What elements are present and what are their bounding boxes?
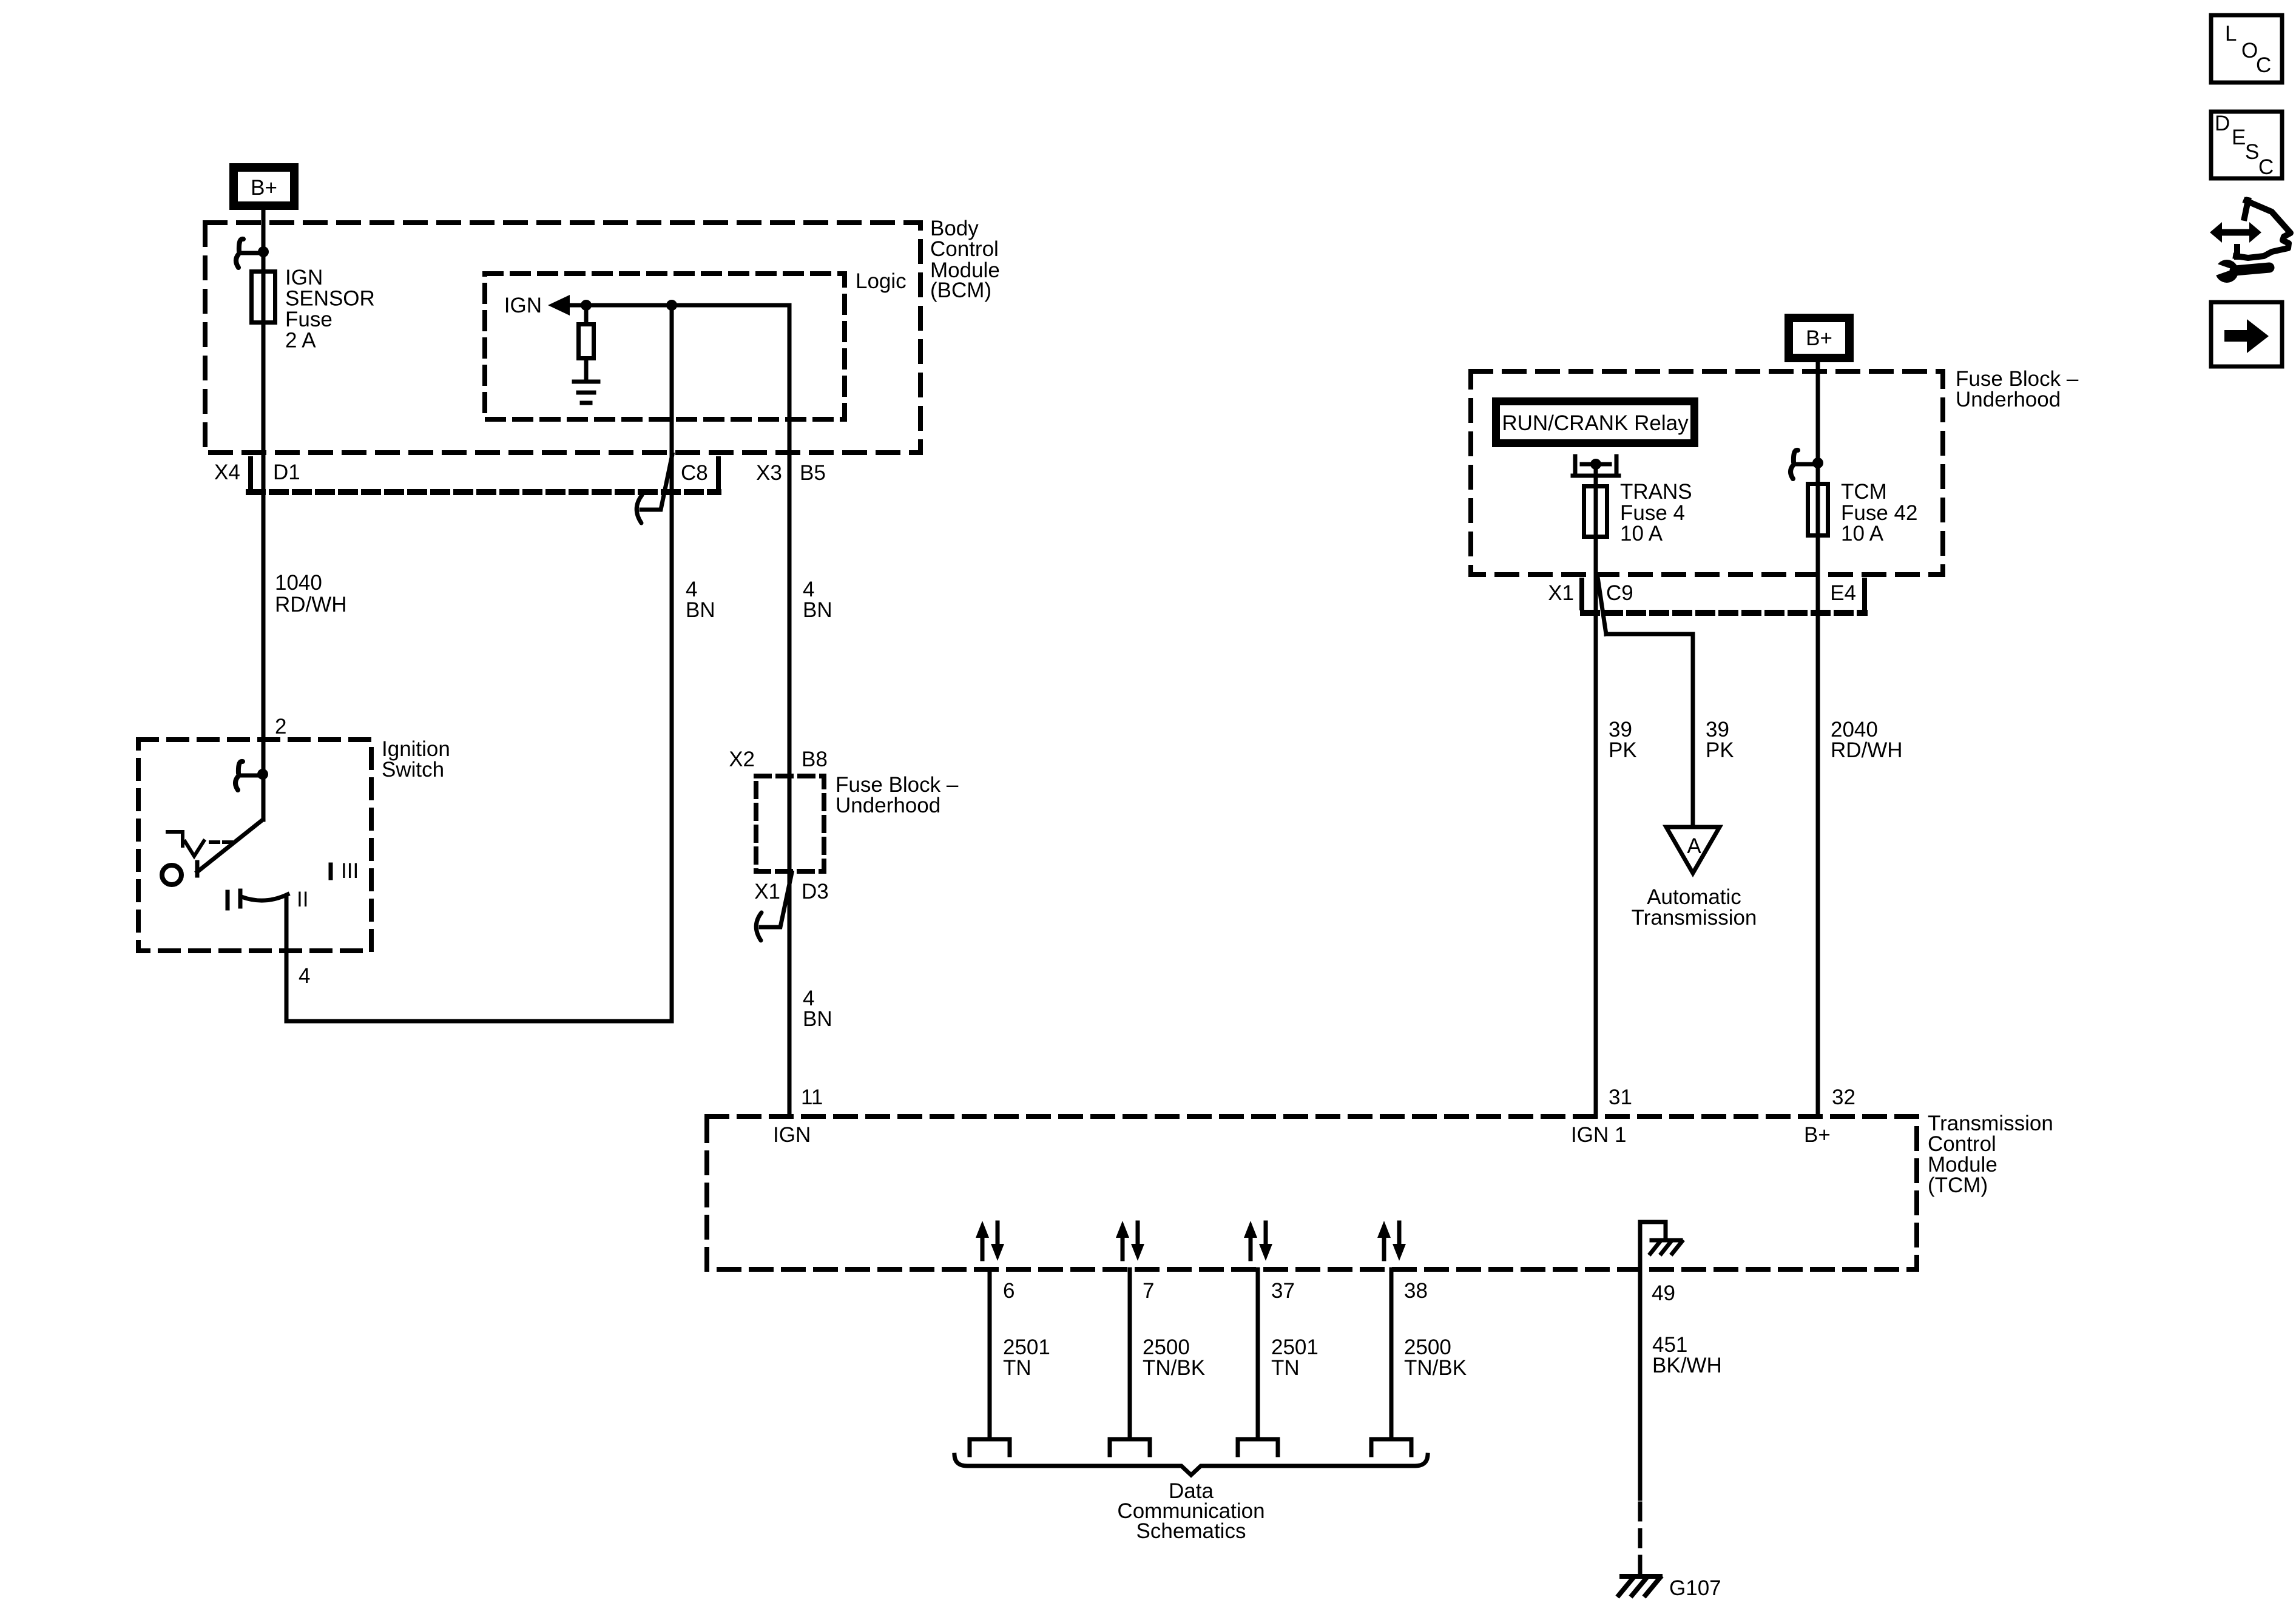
- svg-text:S: S: [2245, 140, 2259, 164]
- forward arrow box icon: [2211, 302, 2282, 366]
- svg-text:Transmission: Transmission: [1632, 906, 1757, 930]
- pass-through clip at X1/D3: [761, 873, 792, 927]
- node at C8 wire tap: [666, 300, 677, 311]
- svg-text:L: L: [2225, 22, 2237, 46]
- svg-text:II: II: [297, 888, 308, 911]
- switch blade: [197, 820, 263, 876]
- wire label 39 PK (branch): [1706, 718, 1734, 762]
- TCM serial data arrows pin 6: [976, 1221, 1004, 1261]
- junction node at relay output: [1590, 459, 1601, 470]
- position II wiper contact arc: [240, 891, 288, 906]
- ignition switch dashed box: [138, 740, 371, 951]
- svg-text:IGN: IGN: [285, 266, 323, 289]
- body control module BCM dashed box: [205, 223, 920, 453]
- svg-text:2: 2: [275, 715, 286, 738]
- junction node at TCM fuse feed: [1812, 457, 1823, 468]
- IGN net arrow inside logic: [567, 303, 789, 308]
- TCM pin 38 wire 2500 TN/BK: [1389, 1269, 1394, 1438]
- svg-text:TN/BK: TN/BK: [1143, 1356, 1205, 1380]
- svg-text:TN: TN: [1003, 1356, 1032, 1380]
- svg-text:X3: X3: [756, 461, 782, 485]
- svg-text:RD/WH: RD/WH: [275, 593, 347, 616]
- svg-text:C: C: [2258, 155, 2274, 179]
- wire label 39 PK (left drop): [1609, 718, 1637, 762]
- junction node at switch pin 2: [257, 769, 268, 780]
- wire from right B+ through TCM fuse down to TCM pin 32: [1816, 362, 1820, 1116]
- svg-text:(TCM): (TCM): [1928, 1173, 1988, 1197]
- svg-text:X1: X1: [1548, 581, 1574, 605]
- svg-text:B+: B+: [251, 176, 277, 200]
- TCM pin 37 wire 2501 TN: [1256, 1269, 1260, 1438]
- svg-text:SENSOR: SENSOR: [285, 287, 375, 311]
- svg-text:B+: B+: [1804, 1123, 1831, 1147]
- wire from IGN net down through C8 to ignition switch pin 4: [286, 305, 672, 1021]
- E4 separator: [1862, 580, 1867, 608]
- svg-text:2 A: 2 A: [285, 329, 316, 353]
- svg-text:Underhood: Underhood: [836, 794, 940, 817]
- svg-text:IGN: IGN: [773, 1123, 811, 1147]
- svg-text:Switch: Switch: [382, 758, 444, 781]
- wire label 1040 RD/WH: [275, 571, 347, 616]
- Fuse Block - Underhood label (middle): [836, 773, 959, 817]
- junction node at B+ feed: [258, 246, 269, 257]
- svg-text:X4: X4: [214, 461, 240, 484]
- fuse TRANS Fuse 4 10 A: [1584, 487, 1607, 537]
- ground (BCM internal): [574, 382, 598, 403]
- Body Control Module (BCM) label: [930, 217, 1000, 302]
- svg-text:6: 6: [1003, 1279, 1015, 1303]
- Data Communication Schematics label: [1117, 1479, 1264, 1543]
- svg-text:1040: 1040: [275, 571, 322, 595]
- svg-text:III: III: [341, 859, 359, 883]
- svg-text:B8: B8: [802, 748, 828, 771]
- svg-text:TN: TN: [1271, 1356, 1300, 1380]
- svg-text:BN: BN: [686, 598, 715, 622]
- svg-text:B5: B5: [800, 461, 826, 485]
- Ignition Switch label: [382, 737, 450, 781]
- switch pivot circle: [162, 865, 181, 885]
- Automatic Transmission label: [1632, 885, 1757, 930]
- svg-text:31: 31: [1609, 1085, 1632, 1109]
- wire from relay through TRANS fuse down to TCM pin 31: [1594, 464, 1598, 1116]
- diagnostic jump icon (double arrow, outline, wrench): [2209, 200, 2291, 283]
- pass-through clip at C8: [641, 454, 672, 510]
- position III contact tick: [329, 865, 333, 878]
- svg-text:C9: C9: [1606, 581, 1633, 605]
- svg-text:C8: C8: [681, 461, 708, 485]
- TRANS Fuse 4 10 A value label: [1620, 480, 1692, 545]
- svg-text:X2: X2: [729, 748, 755, 771]
- svg-text:7: 7: [1143, 1279, 1154, 1303]
- svg-text:Fuse: Fuse: [285, 308, 333, 331]
- terminal clip at B+ feed: [240, 251, 263, 255]
- TCM pin 49 wire 451 BK/WH: [1652, 1281, 1722, 1377]
- LOC reference box icon: [2211, 15, 2282, 83]
- BCM logic inner dashed box: [485, 274, 845, 419]
- fuse block underhood small dashed box (X2/B8): [756, 776, 824, 871]
- RUN/CRANK Relay box: [1496, 402, 1695, 444]
- svg-text:32: 32: [1832, 1085, 1855, 1109]
- svg-text:49: 49: [1652, 1281, 1675, 1305]
- svg-text:IGN: IGN: [504, 294, 542, 317]
- wire label 4 BN (D3 drop): [803, 987, 832, 1031]
- svg-text:4: 4: [299, 964, 310, 988]
- svg-text:Schematics: Schematics: [1136, 1519, 1246, 1543]
- svg-text:11: 11: [801, 1085, 823, 1109]
- X4/D1 separator: [248, 459, 253, 487]
- wire IGN net corner down to X3/B5 and TCM pin 11: [788, 305, 792, 1116]
- TCM Fuse 42 10 A value label: [1841, 480, 1917, 545]
- svg-text:B+: B+: [1806, 326, 1832, 350]
- svg-text:TRANS: TRANS: [1620, 480, 1692, 504]
- svg-text:BK/WH: BK/WH: [1652, 1354, 1722, 1377]
- B+ power symbol box (right): [1789, 318, 1849, 358]
- svg-text:Logic: Logic: [856, 269, 907, 293]
- svg-text:10 A: 10 A: [1841, 522, 1884, 545]
- key symbol: [167, 832, 231, 856]
- svg-text:TN/BK: TN/BK: [1404, 1356, 1467, 1380]
- wire label 4 BN (C8 drop): [686, 578, 715, 622]
- svg-text:RUN/CRANK Relay: RUN/CRANK Relay: [1502, 411, 1689, 435]
- brace for data communication schematics: [954, 1455, 1428, 1475]
- svg-text:D1: D1: [273, 461, 300, 484]
- TCM serial data arrows pin 38: [1377, 1221, 1406, 1261]
- Fuse Block - Underhood label (right): [1956, 367, 2079, 411]
- B+ power symbol box (left): [234, 167, 294, 206]
- svg-text:38: 38: [1404, 1279, 1428, 1303]
- ground G107: [1619, 1576, 1660, 1595]
- svg-text:IGN 1: IGN 1: [1571, 1123, 1626, 1147]
- terminal clip at TCM fuse feed: [1795, 462, 1818, 467]
- svg-text:10 A: 10 A: [1620, 522, 1663, 545]
- svg-text:BN: BN: [803, 598, 832, 622]
- Transmission Control Module (TCM) label: [1928, 1112, 2053, 1197]
- TCM serial data arrows pin 37: [1244, 1221, 1272, 1261]
- TCM pin 6 wire 2501 TN: [988, 1269, 992, 1438]
- svg-text:G107: G107: [1669, 1576, 1721, 1600]
- connector X1 line (right fuse block): [1583, 610, 1865, 616]
- X1/C9 separator: [1579, 580, 1584, 608]
- svg-text:TCM: TCM: [1841, 480, 1887, 504]
- IGN SENSOR Fuse 2 A value label: [285, 266, 375, 353]
- wire from B+ down through IGN SENSOR fuse to ignition switch: [262, 210, 266, 820]
- transmission control module TCM dashed box: [707, 1116, 1917, 1269]
- TCM pin 7 wire 2500 TN/BK: [1128, 1269, 1132, 1438]
- svg-text:RD/WH: RD/WH: [1831, 738, 1903, 762]
- off-page triangle A (Automatic Transmission): [1666, 827, 1720, 873]
- TCM internal ground (pin 49): [1640, 1222, 1666, 1269]
- pass-through clip at C9: [1598, 577, 1606, 634]
- svg-text:D: D: [2215, 112, 2230, 135]
- branch wire to automatic transmission: [1606, 634, 1693, 827]
- C8 separator: [716, 459, 721, 487]
- TCM serial data arrows pin 7: [1116, 1221, 1144, 1261]
- svg-text:E4: E4: [1830, 581, 1856, 605]
- svg-text:E: E: [2232, 126, 2246, 149]
- node on IGN net: [581, 300, 592, 311]
- svg-text:BN: BN: [803, 1007, 832, 1031]
- svg-text:Underhood: Underhood: [1956, 388, 2061, 411]
- svg-text:A: A: [1687, 834, 1701, 858]
- svg-text:C: C: [2256, 53, 2271, 77]
- wire label 2040 RD/WH: [1831, 718, 1903, 762]
- DESC reference box icon: [2211, 112, 2282, 178]
- terminal clip at switch pin 2: [240, 774, 263, 778]
- svg-text:X1: X1: [754, 880, 780, 903]
- svg-text:PK: PK: [1609, 738, 1637, 762]
- fuse TCM Fuse 42 10 A: [1808, 484, 1828, 536]
- connector X4/D1 line (BCM): [249, 489, 718, 495]
- relay output terminal bracket: [1573, 456, 1619, 476]
- resistor (BCM internal pull-down): [584, 305, 589, 382]
- fuse block underhood dashed box (right): [1471, 371, 1943, 575]
- wire label 4 BN (B5 drop): [803, 578, 832, 622]
- svg-text:Control: Control: [930, 237, 999, 261]
- svg-text:PK: PK: [1706, 738, 1734, 762]
- position I contact tick: [226, 892, 230, 908]
- svg-text:37: 37: [1271, 1279, 1295, 1303]
- svg-text:(BCM): (BCM): [930, 279, 991, 302]
- fuse IGN SENSOR Fuse 2 A: [252, 272, 275, 323]
- svg-text:D3: D3: [802, 880, 829, 903]
